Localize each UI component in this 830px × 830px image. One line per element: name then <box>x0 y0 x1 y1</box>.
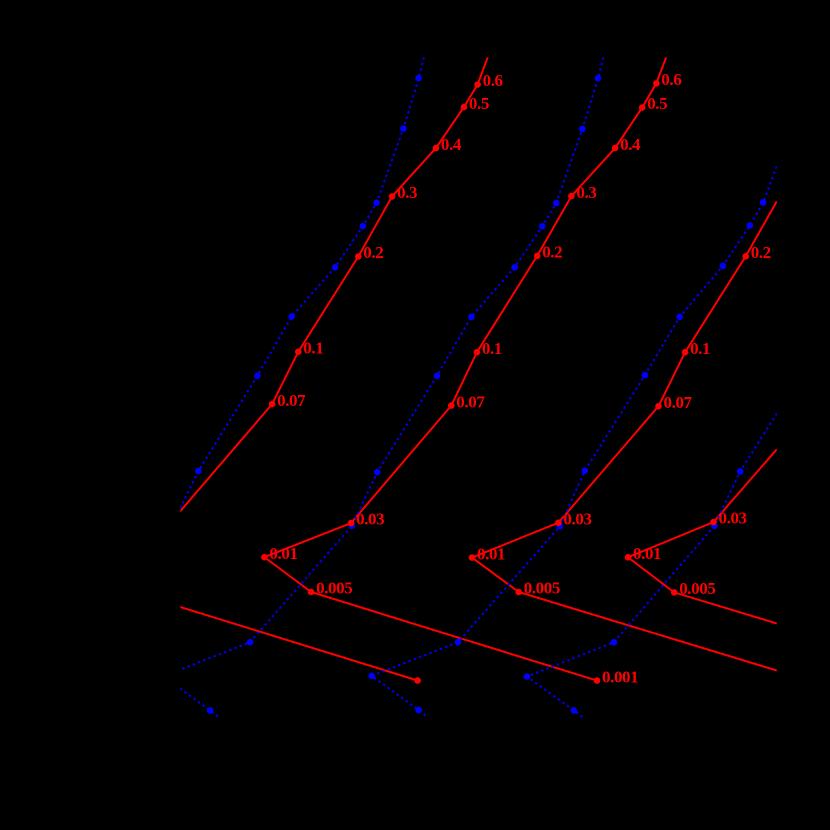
red curve A line2 <box>180 607 418 681</box>
svg-text:0.1: 0.1 <box>303 338 323 357</box>
svg-text:0.3: 0.3 <box>397 183 417 202</box>
blue dotted curve A line1 <box>180 57 424 508</box>
red points D <box>625 519 717 596</box>
svg-text:0.07: 0.07 <box>277 391 306 410</box>
svg-text:0.005: 0.005 <box>524 579 560 598</box>
red points C <box>469 253 749 595</box>
blue dotted curve C line1 <box>372 167 777 718</box>
svg-text:0.1: 0.1 <box>690 339 710 358</box>
blue dotted curve B line1 <box>180 57 603 669</box>
svg-text:0.5: 0.5 <box>469 94 489 113</box>
red curve C line1 <box>472 201 777 670</box>
svg-text:0.07: 0.07 <box>456 392 485 411</box>
svg-text:0.1: 0.1 <box>482 339 502 358</box>
svg-text:0.6: 0.6 <box>661 70 681 89</box>
red curve D line1 <box>628 449 777 623</box>
svg-text:0.005: 0.005 <box>679 579 715 598</box>
svg-text:0.03: 0.03 <box>356 510 384 529</box>
svg-text:0.2: 0.2 <box>542 243 562 262</box>
svg-text:0.01: 0.01 <box>269 544 297 563</box>
svg-text:0.5: 0.5 <box>647 94 667 113</box>
svg-text:0.001: 0.001 <box>602 667 638 686</box>
svg-text:0.03: 0.03 <box>719 509 747 528</box>
svg-text:0.2: 0.2 <box>751 243 771 262</box>
svg-text:0.01: 0.01 <box>633 544 661 563</box>
blue points D <box>524 468 744 714</box>
svg-text:0.4: 0.4 <box>620 135 641 154</box>
red points A <box>269 81 481 684</box>
red curve B line1 <box>264 57 666 680</box>
red points B <box>261 80 659 684</box>
blue dotted curve B line2 <box>180 689 220 718</box>
blue dotted curve D line1 <box>527 413 777 717</box>
svg-text:0.005: 0.005 <box>316 579 352 598</box>
red curve A line1 <box>180 57 488 511</box>
svg-text:0.2: 0.2 <box>363 243 383 262</box>
svg-text:0.03: 0.03 <box>563 509 591 528</box>
svg-text:0.6: 0.6 <box>483 71 503 90</box>
svg-text:0.07: 0.07 <box>664 393 693 412</box>
svg-text:0.3: 0.3 <box>576 183 596 202</box>
blue points C <box>368 199 766 713</box>
svg-text:0.4: 0.4 <box>441 135 462 154</box>
blue points A <box>195 75 422 474</box>
blue points B <box>207 75 602 714</box>
svg-text:0.01: 0.01 <box>477 544 505 563</box>
